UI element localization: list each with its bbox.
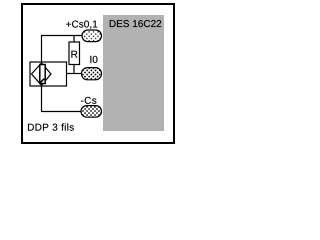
wire middle horizontal to I0 pad bbox=[67, 73, 83, 75]
sensor diamond bbox=[32, 63, 52, 85]
wire left vertical into sensor box bbox=[41, 35, 43, 62]
label I0 bbox=[90, 56, 97, 63]
wire stub above R bbox=[73, 36, 75, 43]
wire top horizontal to +Cs pad bbox=[42, 35, 83, 37]
pad -Cs (bottom) bbox=[81, 106, 102, 118]
resistor R box bbox=[69, 42, 80, 65]
label +Cs0,1 bbox=[66, 21, 97, 29]
pad I0 (middle) bbox=[82, 68, 102, 80]
wire bottom vertical from sensor box bbox=[41, 86, 43, 112]
resistor R value label bbox=[71, 51, 77, 58]
IC body DES 16C22 (gray) bbox=[103, 15, 164, 131]
sensor diagonal mark bbox=[40, 79, 44, 83]
label -Cs bbox=[81, 97, 96, 104]
label DDP 3 fils bbox=[28, 123, 74, 130]
sensor plunger rect bbox=[40, 65, 45, 84]
wire bottom horizontal to -Cs pad bbox=[41, 111, 82, 113]
sensor box (proximity detector) bbox=[30, 62, 67, 86]
label DES 16C22 bbox=[110, 20, 161, 27]
wire stub below R bbox=[73, 65, 75, 74]
pad +Cs (top) bbox=[82, 30, 102, 42]
